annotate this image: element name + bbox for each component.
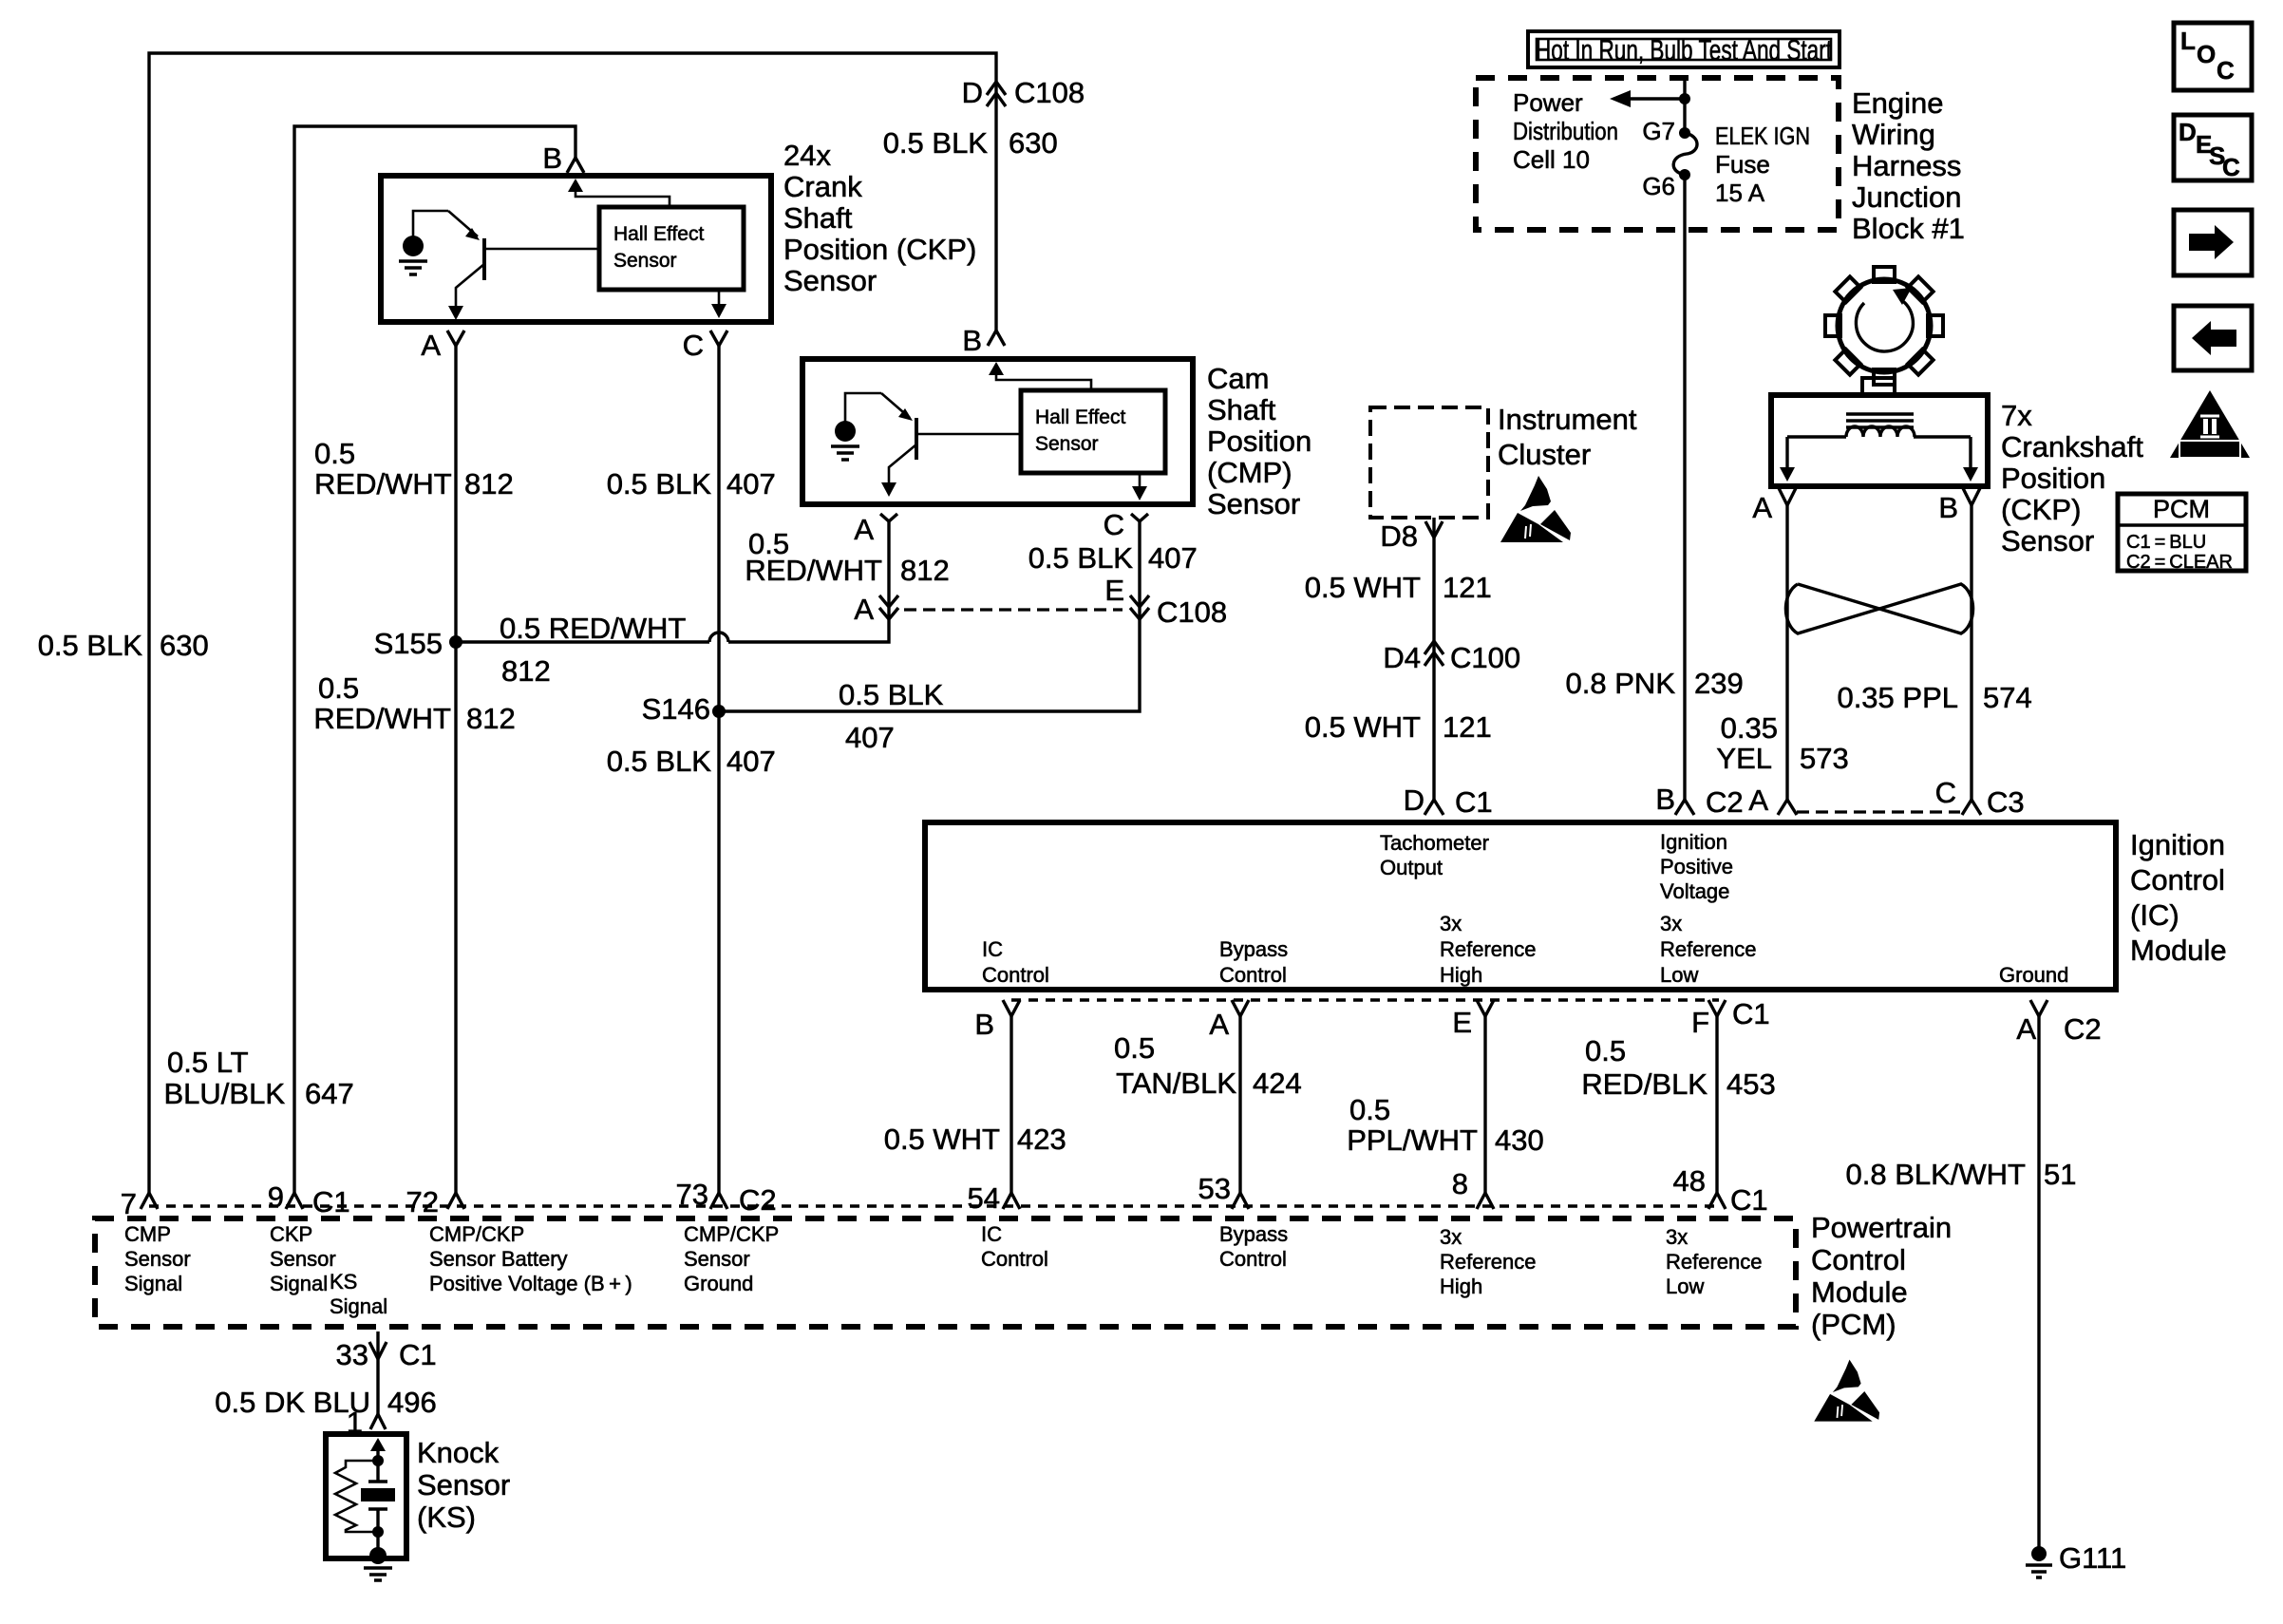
svg-text:407: 407 [1148,541,1198,575]
svg-text:7x: 7x [2001,399,2032,432]
KS case ground dot [369,1547,387,1564]
connector C108 pin E double chevron [1130,595,1149,619]
svg-text:C1: C1 [399,1338,437,1371]
right arrow icon [2189,225,2234,259]
CKP pin C fork [710,330,727,346]
svg-text:D8: D8 [1380,519,1418,553]
wire bypass control: IC pin A to PCM pin 53 (ckt 424) [1238,1016,1241,1193]
svg-text:Cell 10: Cell 10 [1513,145,1590,174]
svg-text:Sensor: Sensor [783,264,877,297]
svg-text:Sensor: Sensor [613,250,677,272]
svg-text:Ignition: Ignition [1660,830,1727,854]
svg-text:Positive: Positive [1660,855,1733,878]
svg-text:Positive Voltage (B + ): Positive Voltage (B + ) [429,1272,632,1295]
7x CKP sensor top tab [1862,378,1895,395]
svg-text:0.5 BLK: 0.5 BLK [1028,541,1134,575]
svg-text:3x: 3x [1440,1225,1462,1249]
wire PCM top connector dashed face [149,1204,1721,1208]
knock sensor pin 1 fork [370,1414,386,1429]
svg-text:0.5: 0.5 [1349,1093,1390,1126]
KS piezo element [368,1461,387,1532]
CMP internal ground wire [845,393,881,422]
svg-text:High: High [1440,963,1482,987]
wire sensor ground: PCM pin73 to CKP pin C (ckt 407) [717,346,720,1193]
svg-text:A: A [1209,1008,1229,1041]
svg-text:A: A [2016,1012,2036,1046]
svg-text:0.5: 0.5 [1585,1034,1626,1067]
svg-text:Hall Effect: Hall Effect [613,223,704,245]
svg-text:Control: Control [982,963,1049,987]
CMP transistor collector to hall box [916,433,1021,436]
wire 3x reference high: IC pin E to PCM pin 8 (ckt 430) [1483,1016,1486,1193]
svg-text:0.5: 0.5 [314,437,355,470]
svg-text:496: 496 [387,1386,437,1419]
CKP transistor base bar [482,238,486,280]
svg-text:Sensor: Sensor [1207,487,1300,520]
svg-text:630: 630 [1009,126,1058,160]
CMP hall box ground leg [1139,473,1141,492]
CKP hall box ground leg [718,290,721,310]
ignition control module box [925,822,2116,990]
svg-text:Ground: Ground [1999,963,2068,987]
svg-text:Reference: Reference [1440,937,1537,961]
svg-text:121: 121 [1443,571,1492,604]
svg-text:A: A [1752,491,1772,524]
svg-text:Wiring: Wiring [1852,118,1935,151]
svg-text:Signal: Signal [270,1272,328,1295]
svg-text:121: 121 [1443,710,1492,744]
svg-text:3x: 3x [1440,912,1462,935]
svg-text:(KS): (KS) [417,1501,476,1534]
LOC box [2174,23,2252,90]
wire S155 branch to CMP pin A (ckt 812) [456,640,709,643]
fuse terminal G7 dot [1679,127,1690,139]
KS internal feed wire [376,1447,379,1461]
svg-text:0.5 BLK: 0.5 BLK [883,126,989,160]
svg-text:OBD II: OBD II [2187,442,2234,457]
svg-text:0.5 BLK: 0.5 BLK [607,745,712,778]
svg-text:Knock: Knock [417,1436,500,1469]
CKP pin A fork [447,330,464,346]
svg-text:0.5 BLK: 0.5 BLK [38,629,143,662]
wire dashed C3 A-C link [1797,810,1960,813]
KS resistor [335,1461,378,1532]
svg-text:Low: Low [1666,1275,1704,1298]
svg-text:Position (CKP): Position (CKP) [783,233,976,266]
CMP internal ground hatches [831,446,859,460]
wire fuse output to IC module pin B (ckt 239) [1683,78,1686,801]
svg-text:C1: C1 [1732,997,1770,1030]
svg-text:72: 72 [406,1185,439,1218]
svg-text:15 A: 15 A [1715,179,1765,207]
CMP hall box feed step wire [996,369,1091,390]
IC module pin D fork [1425,800,1443,815]
svg-text:Low: Low [1660,963,1698,987]
left arrow icon [2192,321,2236,355]
svg-text:630: 630 [160,629,209,662]
svg-text:IC: IC [982,937,1003,961]
svg-text:Shaft: Shaft [783,201,853,235]
svg-text:C: C [2217,56,2235,85]
DESC box [2174,115,2252,180]
svg-text:574: 574 [1983,681,2032,714]
knock sensor pin 33 fork [369,1342,387,1359]
svg-text:C108: C108 [1014,76,1085,109]
svg-text:D: D [962,76,983,109]
svg-text:7: 7 [121,1187,137,1220]
connector C100 pin D4 double chevron [1425,641,1443,666]
KS internal feed arrowhead [370,1438,386,1451]
7x CKP pin B fork [1963,488,1980,505]
svg-text:TAN/BLK: TAN/BLK [1116,1067,1236,1100]
svg-text:Junction: Junction [1852,180,1961,214]
wire KS signal: PCM pin 33 to knock sensor (ckt 496) [376,1331,379,1414]
svg-text:D: D [1404,784,1425,817]
svg-text:Sensor: Sensor [270,1247,336,1271]
7x CKP inductor winding [1787,435,1971,438]
svg-text:F: F [1691,1006,1709,1039]
CMP hall effect sensor box [1021,390,1165,473]
CKP pin B fork [567,158,584,173]
CKP output arrowhead [448,306,463,320]
svg-text:0.5 BLK: 0.5 BLK [607,467,712,500]
right arrow box [2174,210,2252,275]
svg-text:Crankshaft: Crankshaft [2001,430,2143,463]
CKP transistor output leg [456,264,484,312]
svg-text:Cam: Cam [1207,362,1269,395]
KS ground wire [376,1532,379,1556]
svg-text:YEL: YEL [1716,742,1772,775]
svg-text:B: B [1938,491,1958,524]
svg-text:D4: D4 [1383,641,1421,674]
svg-text:Bypass: Bypass [1219,937,1288,961]
connector C108 pin D double chevron [987,82,1006,106]
24x CKP sensor box [381,176,771,322]
svg-text:Sensor Battery: Sensor Battery [429,1247,568,1271]
svg-text:423: 423 [1017,1123,1066,1156]
svg-text:O: O [2197,40,2216,68]
OBD II triangle [2170,390,2250,458]
CMP pin C fork [1131,514,1148,521]
svg-text:430: 430 [1495,1124,1544,1157]
svg-text:424: 424 [1253,1067,1302,1100]
PCM top pin forks [141,1193,158,1209]
svg-text:0.35 PPL: 0.35 PPL [1837,681,1958,714]
wire power distribution arrow feed [1627,97,1685,100]
svg-text:812: 812 [466,702,516,735]
wire 3x reference low: IC pin F to PCM pin 48 (ckt 453) [1715,1016,1718,1193]
CKP internal ground hatches [399,261,427,274]
svg-text:C3: C3 [1987,785,2025,819]
power distribution dashed box [1476,78,1839,230]
wire IC control: IC pin B to PCM pin 54 (ckt 423) [1009,1016,1012,1193]
7x CKP pin A fork [1779,488,1796,505]
svg-text:0.5 WHT: 0.5 WHT [1305,571,1421,604]
wire IC module bottom connector dashed face [1011,998,1719,1002]
svg-text:Power: Power [1513,88,1583,117]
CMP feed arrowhead [989,362,1004,375]
svg-text:C1: C1 [312,1185,350,1218]
CMP output arrowhead [881,482,896,497]
svg-text:Position: Position [2001,462,2105,495]
svg-text:Block #1: Block #1 [1852,212,1965,245]
svg-text:0.5 WHT: 0.5 WHT [884,1123,1000,1156]
svg-text:1: 1 [347,1406,363,1439]
svg-text:C1 = BLU: C1 = BLU [2126,532,2206,553]
svg-text:812: 812 [464,467,514,500]
IC module bottom pin forks [1003,1000,1020,1016]
svg-text:B: B [974,1008,994,1041]
svg-text:812: 812 [501,654,551,688]
pickup coil bowtie [1785,584,1972,633]
CMP pin B fork [988,330,1005,346]
svg-text:C: C [683,329,704,362]
svg-text:0.5 RED/WHT: 0.5 RED/WHT [500,612,686,645]
svg-text:Distribution: Distribution [1513,117,1618,145]
PCM dashed box [95,1218,1796,1327]
svg-text:Signal: Signal [124,1272,182,1295]
CKP hall effect sensor box [599,207,744,290]
svg-text:C1: C1 [1455,785,1493,819]
CKP hall box feed step wire [575,186,670,207]
CMP transistor emitter [881,393,910,418]
wire S155 branch continued [728,521,889,642]
KS ground hatches [364,1568,392,1580]
svg-text:Module: Module [1811,1275,1908,1309]
svg-text:RED/WHT: RED/WHT [313,702,451,735]
svg-text:Position: Position [1207,425,1311,458]
svg-text:647: 647 [305,1077,354,1110]
svg-text:C1: C1 [1730,1183,1768,1217]
wire dashed C108 A-E link [904,608,1123,611]
svg-text:Module: Module [2130,934,2227,967]
7x CKP sensor box [1771,395,1988,486]
G111 ground dot [2031,1546,2047,1561]
svg-text:Crank: Crank [783,170,862,203]
fuse element [1673,133,1697,175]
svg-text:Sensor: Sensor [1035,433,1099,455]
svg-text:CMP/CKP: CMP/CKP [429,1222,524,1246]
svg-text:8: 8 [1452,1167,1468,1200]
svg-text:3x: 3x [1666,1225,1688,1249]
svg-text:Sensor: Sensor [417,1468,510,1501]
svg-text:Fuse: Fuse [1715,150,1770,179]
CKP internal ground circle [403,236,424,256]
svg-text:Ignition: Ignition [2130,828,2225,861]
CKP transistor emitter [448,211,478,236]
svg-text:IC: IC [981,1222,1002,1246]
fuse terminal G6 dot [1679,169,1690,180]
svg-text:C108: C108 [1157,595,1227,629]
svg-text:Bypass: Bypass [1219,1222,1288,1246]
connector C108 pin A double chevron [879,595,898,619]
svg-text:407: 407 [726,467,776,500]
wire 7x CKP pin A to IC module pin A (ckt 573) [1785,505,1788,801]
svg-text:Control: Control [1219,963,1287,987]
CMP transistor base bar [915,418,918,460]
svg-text:S146: S146 [642,692,710,726]
PCM legend box [2118,494,2246,571]
svg-text:239: 239 [1694,667,1744,700]
svg-text:B: B [542,142,562,175]
svg-text:0.5 BLK: 0.5 BLK [839,678,944,711]
svg-text:0.8 PNK: 0.8 PNK [1566,667,1676,700]
wire CMP pin C to S146 (ckt 407) [719,521,1140,711]
svg-text:BLU/BLK: BLU/BLK [163,1077,285,1110]
CMP transistor output leg [889,444,916,488]
wire 7x CKP pin B to IC module pin C (ckt 574) [1970,505,1972,801]
CKP internal ground wire [413,211,448,236]
svg-text:(CKP): (CKP) [2001,493,2081,526]
KS top junction dot [372,1455,384,1466]
svg-text:C: C [1935,776,1956,809]
svg-text:E: E [1104,574,1124,607]
svg-text:Engine: Engine [1852,86,1944,120]
wire hop over pin73 wire [709,633,728,642]
junction S155 [449,635,462,649]
svg-text:PCM: PCM [2153,495,2210,523]
svg-text:0.8 BLK/WHT: 0.8 BLK/WHT [1846,1158,2027,1191]
svg-text:A: A [854,513,874,546]
svg-text:A: A [421,329,441,362]
svg-text:S155: S155 [374,627,443,660]
IC module pin B fork [1675,800,1694,815]
svg-text:C: C [2222,153,2240,181]
junction fuse feed dot [1679,93,1690,104]
svg-text:Sensor: Sensor [684,1247,750,1271]
gear rotation arrow [1856,299,1913,351]
svg-text:Control: Control [981,1247,1048,1271]
wire IC ground: IC pin A C2 to G111 (ckt 51) [2037,1016,2040,1550]
svg-text:C: C [1104,508,1124,541]
svg-text:(PCM): (PCM) [1811,1308,1896,1341]
svg-text:Powertrain: Powertrain [1811,1211,1952,1244]
svg-text:Tachometer: Tachometer [1380,831,1489,855]
svg-text:0.5: 0.5 [318,671,359,705]
svg-text:0.5 WHT: 0.5 WHT [1305,710,1421,744]
svg-text:Shaft: Shaft [1207,393,1276,426]
instrument cluster ESD symbol [1500,476,1571,542]
svg-text:High: High [1440,1275,1482,1298]
svg-text:KS: KS [330,1270,357,1294]
svg-text:Output: Output [1380,856,1443,879]
svg-text:53: 53 [1198,1172,1231,1205]
junction S146 [712,705,726,718]
svg-text:Harness: Harness [1852,149,1961,182]
svg-text:Instrument: Instrument [1498,403,1637,436]
svg-text:E: E [1452,1006,1472,1039]
svg-text:C100: C100 [1450,641,1520,674]
gear teeth [1825,267,1943,385]
svg-text:573: 573 [1800,742,1849,775]
hot in run label box [1528,31,1840,67]
svg-text:812: 812 [900,554,950,587]
wire instrument cluster D8 to IC module pin D (ckt 121) [1432,518,1435,801]
svg-text:0.35: 0.35 [1721,711,1778,745]
svg-text:73: 73 [676,1178,708,1211]
svg-text:407: 407 [845,721,895,754]
CKP transistor collector to hall box [484,248,599,251]
wire CKP sensor signal: PCM pin9 to CKP pin B (ckt 647) [294,126,575,1193]
svg-text:D: D [2179,118,2197,146]
svg-text:Control: Control [1811,1243,1906,1276]
svg-text:51: 51 [2044,1158,2076,1191]
svg-text:C2 = CLEAR: C2 = CLEAR [2126,552,2233,573]
svg-text:Hall Effect: Hall Effect [1035,406,1125,428]
svg-text:ELEK IGN: ELEK IGN [1715,122,1810,150]
svg-text:C2: C2 [1706,785,1744,819]
wire CMP sensor signal: PCM pin7 to CMP pin B (ckt 630) [149,53,996,1193]
svg-text:L: L [2180,27,2196,55]
IC module pin A fork [1778,800,1797,815]
svg-text:0.5 LT: 0.5 LT [167,1046,249,1079]
svg-text:Sensor: Sensor [2001,524,2094,557]
arrowhead power feed [1610,90,1631,107]
7x CKP internal legs [1787,437,1971,471]
CMP sensor box [802,359,1193,504]
svg-text:453: 453 [1726,1067,1776,1101]
svg-text:407: 407 [726,745,776,778]
wire sensor battery feed: PCM pin72 to CKP pin A (ckt 812) [454,346,457,1193]
svg-text:48: 48 [1673,1164,1706,1198]
svg-text:Sensor: Sensor [124,1247,191,1271]
svg-text:Cluster: Cluster [1498,438,1591,471]
CKP feed arrowhead [568,179,583,192]
gear icon body [1838,279,1931,372]
svg-text:B: B [1655,783,1675,816]
knock sensor box [326,1434,406,1558]
instrument cluster dashed box [1370,407,1488,518]
7x CKP leg arrowheads [1780,467,1795,482]
svg-text:G111: G111 [2059,1541,2126,1575]
svg-text:CMP: CMP [124,1222,171,1246]
PCM ESD symbol [1814,1360,1879,1422]
svg-text:Signal: Signal [330,1294,387,1318]
7x CKP core lines [1846,414,1914,427]
svg-text:Ground: Ground [684,1272,753,1295]
svg-text:33: 33 [336,1338,368,1371]
instrument cluster pin D8 fork [1425,521,1443,538]
svg-text:3x: 3x [1660,912,1682,935]
svg-text:G6: G6 [1642,172,1675,200]
svg-text:A: A [1748,784,1768,817]
svg-text:Control: Control [1219,1247,1287,1271]
svg-text:RED/WHT: RED/WHT [314,467,452,500]
svg-text:A: A [854,593,874,626]
svg-text:C2: C2 [739,1183,777,1217]
svg-text:RED/BLK: RED/BLK [1581,1067,1708,1101]
svg-text:Reference: Reference [1666,1250,1763,1274]
svg-text:B: B [962,324,982,357]
KS bottom junction dot [372,1526,384,1538]
svg-text:24x: 24x [783,139,831,172]
svg-text:CKP: CKP [270,1222,312,1246]
svg-text:CMP/CKP: CMP/CKP [684,1222,779,1246]
CMP internal ground circle [835,421,856,442]
G111 ground hatches [2026,1565,2052,1577]
svg-text:Hot In Run, Bulb Test And Star: Hot In Run, Bulb Test And Start [1536,33,1832,66]
IC module pin C fork [1962,800,1981,815]
svg-text:(CMP): (CMP) [1207,456,1292,489]
svg-text:Reference: Reference [1440,1250,1537,1274]
svg-text:0.5: 0.5 [1114,1031,1155,1065]
svg-text:Reference: Reference [1660,937,1757,961]
svg-text:54: 54 [968,1181,1000,1215]
svg-text:Control: Control [2130,863,2225,897]
CMP pin A fork [880,514,897,521]
svg-text:C2: C2 [2064,1012,2102,1046]
svg-text:(IC): (IC) [2130,898,2179,932]
